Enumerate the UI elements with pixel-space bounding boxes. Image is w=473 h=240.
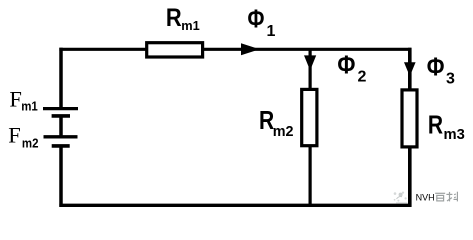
- svg-text:1: 1: [267, 23, 276, 40]
- resistor R_m3 box: [402, 90, 417, 147]
- svg-text:Φ: Φ: [337, 52, 355, 80]
- svg-text:R: R: [428, 109, 443, 139]
- svg-text:2: 2: [358, 68, 367, 85]
- svg-text:m1: m1: [21, 100, 38, 114]
- svg-text:m1: m1: [181, 18, 200, 33]
- svg-text:m3: m3: [444, 126, 465, 143]
- svg-text:R: R: [166, 4, 182, 32]
- wire between source cells F_m1 and F_m2: [59, 116, 63, 137]
- wire bottom horizontal: [59, 204, 411, 207]
- flux arrow phi_1 on top wire: [241, 43, 260, 55]
- mmf source F_m2 long plate: [44, 135, 78, 138]
- svg-text:Φ: Φ: [248, 6, 265, 34]
- mmf source F_m1 short plate: [52, 114, 70, 118]
- svg-text:F: F: [8, 123, 21, 148]
- mmf source F_m1 long plate: [43, 107, 78, 110]
- watermark glyph bai: [435, 193, 445, 201]
- svg-text:F: F: [9, 86, 22, 111]
- mmf source F_m2 short plate: [52, 144, 70, 148]
- flux arrow phi_2 on middle branch: [304, 55, 316, 70]
- wire middle branch (node at top and bottom): [309, 49, 312, 205]
- svg-text:Φ: Φ: [427, 53, 445, 81]
- wire right branch: [408, 48, 412, 207]
- svg-text:NVH: NVH: [416, 192, 435, 202]
- resistor R_m1 box: [147, 43, 203, 57]
- svg-text:m2: m2: [22, 137, 39, 151]
- wire top horizontal: [59, 48, 411, 51]
- wire left side upper segment: [59, 48, 63, 109]
- flux arrow phi_3 on right branch: [404, 62, 416, 76]
- watermark glyph ke: [446, 192, 457, 202]
- svg-text:3: 3: [446, 70, 455, 87]
- svg-text:m2: m2: [273, 123, 294, 140]
- watermark icon: [394, 192, 407, 202]
- resistor R_m2 box: [302, 89, 317, 145]
- wire left side lower segment: [59, 146, 63, 207]
